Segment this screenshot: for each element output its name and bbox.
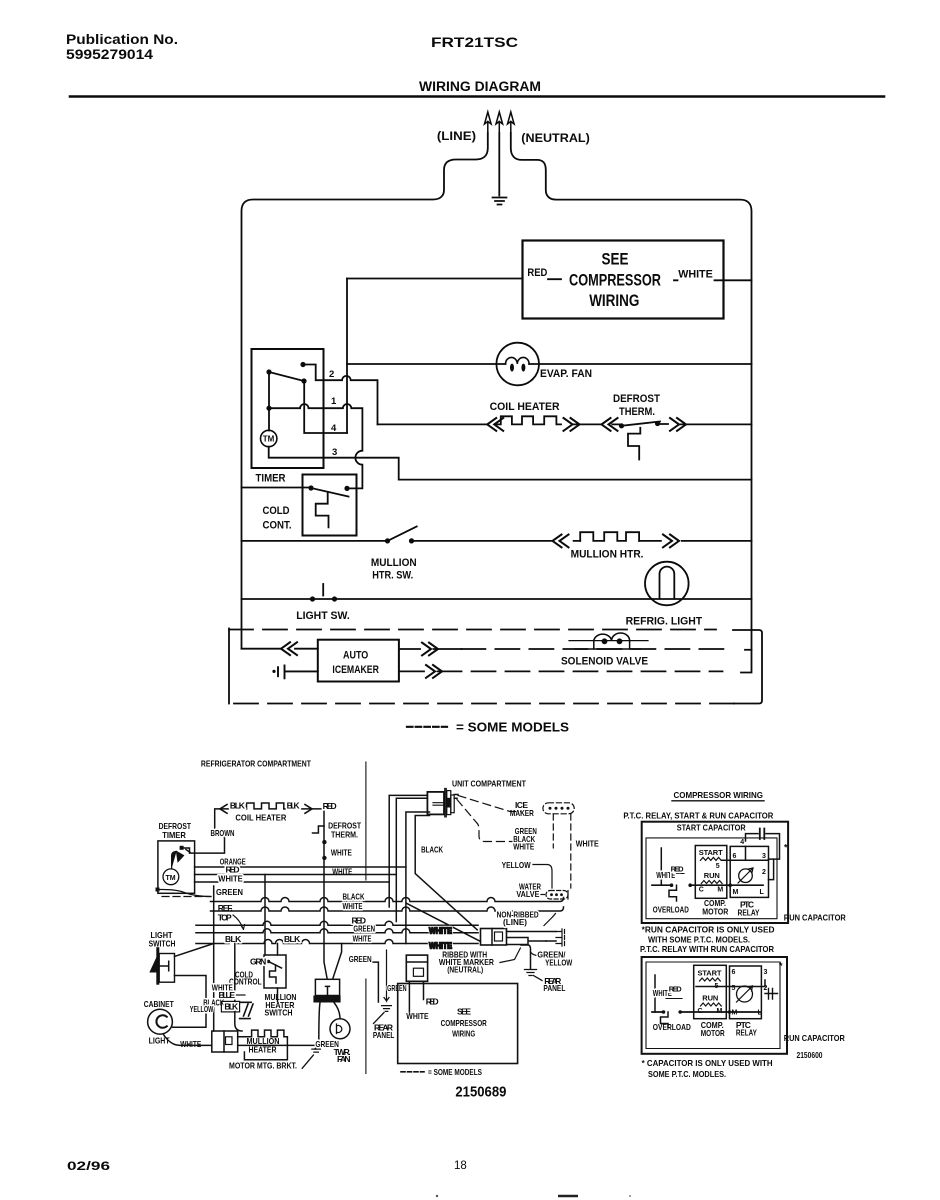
wire light switch loop via cabinet light [173,976,206,1028]
svg-text:OVERLOAD: OVERLOAD [653,905,689,915]
wire light switch to bus [175,944,214,957]
icemaker output line 2 [399,670,424,672]
svg-text:GREEN: GREEN [387,983,407,993]
arrow chevrons right of coil heater [564,418,580,431]
ground rear panel left [374,1006,392,1024]
svg-text:RED: RED [669,985,683,994]
compartment divider line [365,762,367,880]
caption run capacitor note [640,924,775,954]
auto icemaker feed wire [242,648,318,650]
svg-text:MOTOR MTG. BRKT.: MOTOR MTG. BRKT. [229,1060,297,1070]
wire: red feed to compressor box [347,278,561,281]
wire: center prong to ground [498,133,500,196]
evap fan motor M1 [496,343,539,386]
svg-text:L: L [758,1010,763,1017]
svg-text:MAKER: MAKER [510,808,534,818]
arrow chevrons left of coil heater [487,418,503,431]
arrow chevrons icemaker out 1 [422,643,438,656]
dashed some-models top line [229,629,716,631]
bus b white [211,907,564,911]
ice maker connector pill [543,803,574,814]
svg-text:GREEN: GREEN [349,954,372,964]
svg-text:REFRIG. LIGHT: REFRIG. LIGHT [626,616,703,628]
svg-text:3: 3 [332,447,337,458]
svg-text:BROWN: BROWN [211,828,235,838]
timer bundle wires [195,867,406,882]
white wire through heater plug [238,1044,320,1046]
neutral line stubs with forks [507,932,557,945]
svg-text:2150600: 2150600 [797,1050,823,1060]
svg-text:BLACK: BLACK [421,845,444,855]
svg-text:TIMER: TIMER [256,473,286,485]
wires box1 [722,846,769,860]
icemaker ground capacitor symbol [278,666,318,679]
mullion heater switch symbol [240,1002,253,1018]
svg-text:MOTOR: MOTOR [701,1028,725,1038]
defrost timer cam and arm [172,852,184,869]
svg-text:AUTO: AUTO [343,650,369,662]
mullion heater element outline [238,1030,288,1060]
cold control feed wire [242,487,312,489]
cold control lower box [264,955,286,988]
vertical wire bus to heater box [235,944,242,1032]
timer terminal 1 wire [269,372,362,488]
black wire from plug [415,816,477,930]
wire black bus to ribbed connector [407,904,481,942]
svg-text:RED: RED [426,997,439,1007]
svg-text:GREEN: GREEN [353,923,375,933]
defrost therm sensor step [628,428,640,460]
svg-text:SWITCH: SWITCH [149,939,176,949]
arrow chevrons icemaker out 2 [426,665,442,678]
svg-text:CONT.: CONT. [263,520,292,532]
coil heater line [378,423,752,425]
svg-text:HTR. SW.: HTR. SW. [372,570,413,582]
bus a black [211,898,564,902]
svg-text:ICEMAKER: ICEMAKER [332,664,379,676]
plug prong L1 arrow [485,112,492,133]
svg-text:YELLOW: YELLOW [502,860,532,870]
svg-text:C: C [699,887,704,894]
green black white labels [502,826,599,870]
label DEFROST THERM. [613,393,660,418]
green wire to compressor plug [371,962,378,1002]
svg-text:RED: RED [323,801,337,811]
timer switch arm [269,372,304,381]
left white wire [660,848,662,885]
dashed green jumper under timer [162,896,211,898]
svg-text:BLACK: BLACK [343,892,366,902]
svg-text:WHITE: WHITE [331,848,352,858]
svg-text:WHITE: WHITE [180,1039,201,1049]
heater plug connector [212,1031,238,1052]
wire white from cabinet light [163,1034,212,1046]
bus e white/blk [196,940,478,944]
svg-text:RUN: RUN [704,871,720,880]
non-ribbed label [497,910,539,928]
dashed wires to ice maker [458,796,521,812]
svg-text:GREEN: GREEN [216,887,243,897]
svg-text:3: 3 [764,969,768,976]
bus labels [225,892,375,944]
light switch line [242,598,752,600]
svg-text:TIMER: TIMER [162,830,186,840]
svg-text:UNIT COMPARTMENT: UNIT COMPARTMENT [452,779,527,789]
svg-text:5995279014: 5995279014 [66,47,154,62]
wire brown down from coil heater [186,809,225,853]
resistor: mullion heater R1 [580,532,639,541]
svg-text:THERM.: THERM. [331,830,358,840]
svg-text:RED: RED [671,865,685,874]
main bus box2 [652,1011,760,1013]
svg-text:RELAY: RELAY [738,908,760,918]
legend: some models [407,726,447,728]
lower coil heater resistor [247,803,284,809]
svg-text:*: * [784,843,788,853]
svg-text:EVAP. FAN: EVAP. FAN [540,368,592,380]
defrost therm leads [324,826,327,978]
ptc relay box 2 [730,966,762,1019]
svg-text:M: M [717,887,723,894]
svg-text:TM: TM [263,435,275,444]
svg-text:WIRING: WIRING [452,1029,475,1039]
resistor: coil heater R2 [497,416,561,424]
defrost timer box [158,841,195,893]
svg-text:BLK: BLK [225,934,242,944]
svg-text:COMPRESSOR WIRING: COMPRESSOR WIRING [674,790,764,800]
svg-text:4: 4 [740,839,744,846]
svg-text:THERM.: THERM. [619,406,655,418]
timer terminal 2 wire [303,365,378,425]
mullion heater line [242,540,752,542]
compressor plug connector [406,955,427,981]
svg-text:6: 6 [733,853,737,860]
cold control contacts [308,485,349,491]
svg-text:MULLION: MULLION [371,557,417,569]
svg-text:FRT21TSC: FRT21TSC [431,35,518,50]
svg-text:RUN: RUN [702,994,718,1003]
dashed some-models bottom line [229,703,734,705]
timer motor TM [261,430,277,446]
svg-text:DEFROST: DEFROST [613,393,660,405]
auto icemaker box [318,640,399,682]
green yellow wire and ground [521,945,531,969]
solenoid valve L1 [575,648,640,650]
svg-text:2: 2 [762,869,766,876]
white wire from plug [406,812,430,944]
svg-text:= SOME MODELS: = SOME MODELS [428,1067,482,1077]
arrow chevrons icemaker feed [281,642,297,655]
svg-text:(NEUTRAL): (NEUTRAL) [447,965,483,975]
overload 2 [661,1012,669,1028]
svg-text:M: M [732,1010,738,1017]
svg-text:WHITE: WHITE [513,842,534,852]
long vertical white wire to heater plug [213,886,215,1031]
wire: main red vertical [346,279,348,433]
svg-text:WIRING: WIRING [589,292,639,310]
svg-text:SOME P.T.C. MODLES.: SOME P.T.C. MODLES. [648,1069,726,1079]
red and white stubs to compressor box [409,981,423,1012]
wire label cluster [190,982,239,1014]
see compressor wiring box (lower) [398,984,518,1064]
svg-text:*: * [779,961,783,971]
svg-text:M: M [733,889,739,896]
svg-text:* CAPACITOR IS ONLY USED WITH: * CAPACITOR IS ONLY USED WITH [642,1058,773,1068]
header: publication number [66,32,541,94]
svg-text:3: 3 [762,853,766,860]
lower coil heater loop [220,808,312,810]
svg-text:FAN: FAN [337,1054,351,1064]
ptc relay box 1 [730,846,768,897]
vertical wire cold control to heater switch [277,944,279,1002]
svg-text:P.T.C. RELAY, START & RUN CAPA: P.T.C. RELAY, START & RUN CAPACITOR [623,811,773,821]
arrow chevrons left of defrost therm [602,418,618,431]
wire: neutral prong into box top [511,133,752,673]
defrost timer motor [163,869,179,885]
dashed some-models loop left vertical [228,629,230,704]
cold control S1 box [303,475,357,536]
ribbed connector [481,929,507,946]
mullion heater switch S2 [385,538,414,543]
wires box2 [696,980,765,987]
dashed wires from ice maker down [552,814,554,848]
svg-text:(LINE): (LINE) [503,917,527,927]
svg-text:SEE: SEE [602,251,629,269]
ground tower fan [302,1049,320,1068]
wire: line prong into box top [242,133,488,649]
see-compressor box U1 [523,241,724,319]
header rule [70,95,884,98]
evap fan motor [330,1019,350,1039]
light switch S4 [310,596,337,601]
ground symbol [493,198,507,205]
svg-text:4: 4 [331,423,337,434]
svg-text:BLK: BLK [284,934,301,944]
bus c red [196,921,478,925]
svg-text:START CAPACITOR: START CAPACITOR [677,822,746,832]
motor box 1 [695,846,727,899]
plug prong mid arrow [496,112,503,133]
bus d green [196,929,478,933]
svg-text:RED: RED [527,267,547,279]
footer [67,1160,631,1197]
svg-text:START: START [698,969,722,978]
svg-text:LIGHT SW.: LIGHT SW. [296,610,350,622]
wire: evap fan line [347,363,752,365]
svg-text:COIL HEATER: COIL HEATER [490,401,560,413]
svg-text:COLD: COLD [263,505,290,517]
svg-text:MOTOR: MOTOR [702,907,728,917]
arrow chevrons right of mullion heater [663,535,679,548]
svg-text:START: START [699,848,723,857]
svg-text:COIL HEATER: COIL HEATER [235,813,286,823]
svg-text:2: 2 [329,369,334,380]
water valve pill [516,882,541,900]
labels orange red white green [216,857,246,923]
arrow chevrons left of mullion heater [553,535,569,548]
svg-text:L: L [760,889,765,896]
ref top arrow [233,915,245,930]
svg-text:YELLOW: YELLOW [545,957,573,967]
cold control sensor zigzag [316,492,329,527]
svg-text:6: 6 [732,969,736,976]
svg-text:BLK: BLK [287,801,301,811]
svg-text:TM: TM [166,875,176,882]
wires connector to fan [319,1003,340,1045]
svg-text:WHITE: WHITE [218,874,243,884]
svg-text:REFRIGERATOR COMPARTMENT: REFRIGERATOR COMPARTMENT [201,759,312,769]
svg-text:CABINET: CABINET [144,999,175,1009]
svg-text:MULLION HTR.: MULLION HTR. [571,549,644,561]
label COLD CONT. [263,505,292,532]
icemaker output line 1 [399,648,462,650]
svg-text:RELAY: RELAY [736,1028,757,1038]
svg-text:18: 18 [454,1160,467,1172]
ribbed with white marker label [439,950,494,975]
svg-text:(NEUTRAL): (NEUTRAL) [521,131,590,145]
svg-text:SWITCH: SWITCH [265,1008,293,1018]
power cord plug connector [427,792,444,815]
svg-text:LIGHT: LIGHT [149,1036,171,1046]
wire red corner to defrost therm [312,809,324,833]
lower some models legend [401,1071,424,1073]
svg-text:5: 5 [716,863,720,870]
svg-text:WHITE: WHITE [343,901,363,911]
timer T1 box [252,349,324,468]
svg-text:RUN CAPACITOR: RUN CAPACITOR [784,1033,845,1043]
ground rear panel right [525,970,543,981]
timer contact nodes [266,362,306,411]
svg-text:WHITE: WHITE [353,934,372,944]
svg-text:P.T.C. RELAY WITH RUN CAPACITO: P.T.C. RELAY WITH RUN CAPACITOR [640,944,774,954]
svg-text:OVERLOAD: OVERLOAD [653,1022,691,1032]
labels along lower coil heater [211,801,362,877]
svg-text:1: 1 [331,396,337,407]
svg-text:COMPRESSOR: COMPRESSOR [569,272,661,290]
chevron left [220,805,227,814]
cabinet light [148,1009,173,1034]
svg-text:WHITE: WHITE [429,926,452,936]
timer terminal 4 wire [304,381,347,433]
svg-text:WHITE: WHITE [576,839,599,849]
arrow chevrons right of defrost therm [670,418,686,431]
svg-text:YELLOW: YELLOW [190,1004,214,1014]
svg-text:PANEL: PANEL [543,983,565,993]
svg-text:*RUN CAPACITOR IS ONLY USED: *RUN CAPACITOR IS ONLY USED [642,924,775,934]
svg-text:RUN CAPACITOR: RUN CAPACITOR [784,913,846,923]
wire: white from compressor box to right bus [674,279,752,281]
compressor box 2 [642,957,787,1054]
light switch body [156,949,159,984]
svg-text:COMPRESSOR: COMPRESSOR [441,1018,487,1028]
chevron right [305,805,312,814]
svg-text:(LINE): (LINE) [437,129,476,143]
svg-text:02/96: 02/96 [67,1161,110,1173]
svg-text:CONTROL: CONTROL [229,977,262,987]
cold control switch arm [311,488,349,497]
timer terminal labels [329,369,337,458]
evap fan connector [333,944,342,979]
compressor box 1 [642,822,788,923]
svg-text:Publication No.: Publication No. [66,32,178,47]
svg-text:2150689: 2150689 [455,1085,506,1101]
yellow wire [533,865,552,889]
svg-text:GRN: GRN [250,957,266,967]
main bus box1 [652,884,763,886]
svg-text:WIRING DIAGRAM: WIRING DIAGRAM [419,79,541,94]
svg-text:SOLENOID VALVE: SOLENOID VALVE [561,656,648,668]
timer terminal 3 wire [269,447,752,480]
dashed some-models right corner [733,630,762,704]
vertical wire to cold control [264,875,266,956]
motor box 2 [694,965,727,1018]
svg-text:BLK: BLK [224,1002,239,1012]
svg-text:BLK: BLK [230,801,246,811]
plug prong N arrow [508,112,515,133]
svg-text:PANEL: PANEL [373,1030,395,1040]
overload 1 [669,885,677,901]
svg-text:TOP: TOP [218,913,232,923]
defrost thermostat S3 [619,421,660,429]
svg-text:= SOME MODELS: = SOME MODELS [456,721,569,735]
svg-text:WHITE: WHITE [678,268,713,280]
rear panel divider line [365,979,367,1074]
refrigerator light LP1 [645,562,689,606]
svg-text:VALVE: VALVE [516,889,539,899]
svg-text:SEE: SEE [457,1007,471,1017]
